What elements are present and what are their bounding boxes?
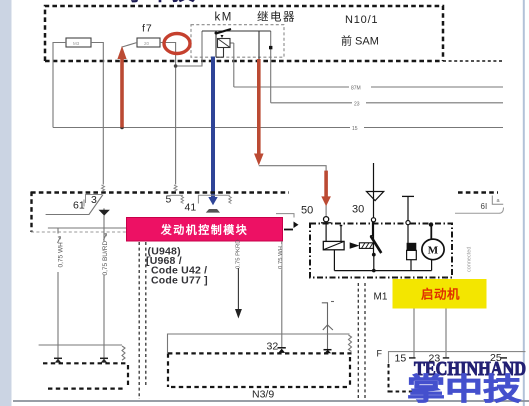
- svg-text:M3: M3: [73, 41, 80, 46]
- svg-text:M1: M1: [374, 292, 388, 303]
- svg-text:0,75 BU/RD: 0,75 BU/RD: [102, 241, 109, 276]
- svg-text:15: 15: [395, 353, 407, 365]
- svg-text:87M: 87M: [351, 86, 361, 92]
- svg-text:20: 20: [144, 41, 150, 46]
- svg-text:0,75 WH: 0,75 WH: [57, 242, 64, 268]
- svg-text:0.75 PKRD: 0.75 PKRD: [235, 240, 241, 269]
- svg-text:N3/9: N3/9: [252, 389, 274, 401]
- svg-text:30: 30: [352, 204, 364, 216]
- svg-text:connected: connected: [467, 247, 473, 272]
- svg-text:启动机: 启动机: [421, 287, 460, 302]
- svg-text:5: 5: [166, 194, 172, 206]
- svg-text:掌中技: 掌中技: [125, 0, 196, 6]
- svg-text:0.75 WH: 0.75 WH: [278, 246, 284, 269]
- svg-text:前 SAM: 前 SAM: [341, 34, 379, 48]
- svg-text:Code U77 ]: Code U77 ]: [151, 275, 208, 287]
- svg-text:N10/1: N10/1: [345, 14, 378, 26]
- svg-text:掌中技: 掌中技: [407, 374, 521, 406]
- svg-text:50: 50: [301, 205, 313, 217]
- svg-text:41: 41: [185, 202, 197, 214]
- svg-text:32: 32: [267, 341, 279, 353]
- svg-text:6I: 6I: [481, 202, 488, 211]
- svg-text:kM: kM: [215, 12, 233, 24]
- svg-text:15: 15: [352, 126, 358, 132]
- svg-text:发动机控制模块: 发动机控制模块: [160, 222, 249, 236]
- svg-text:继电器: 继电器: [257, 11, 296, 24]
- svg-text:f7: f7: [142, 23, 153, 35]
- svg-text:61: 61: [73, 200, 85, 212]
- svg-text:F: F: [377, 349, 383, 359]
- svg-text:M: M: [428, 245, 439, 257]
- svg-text:23: 23: [354, 101, 360, 107]
